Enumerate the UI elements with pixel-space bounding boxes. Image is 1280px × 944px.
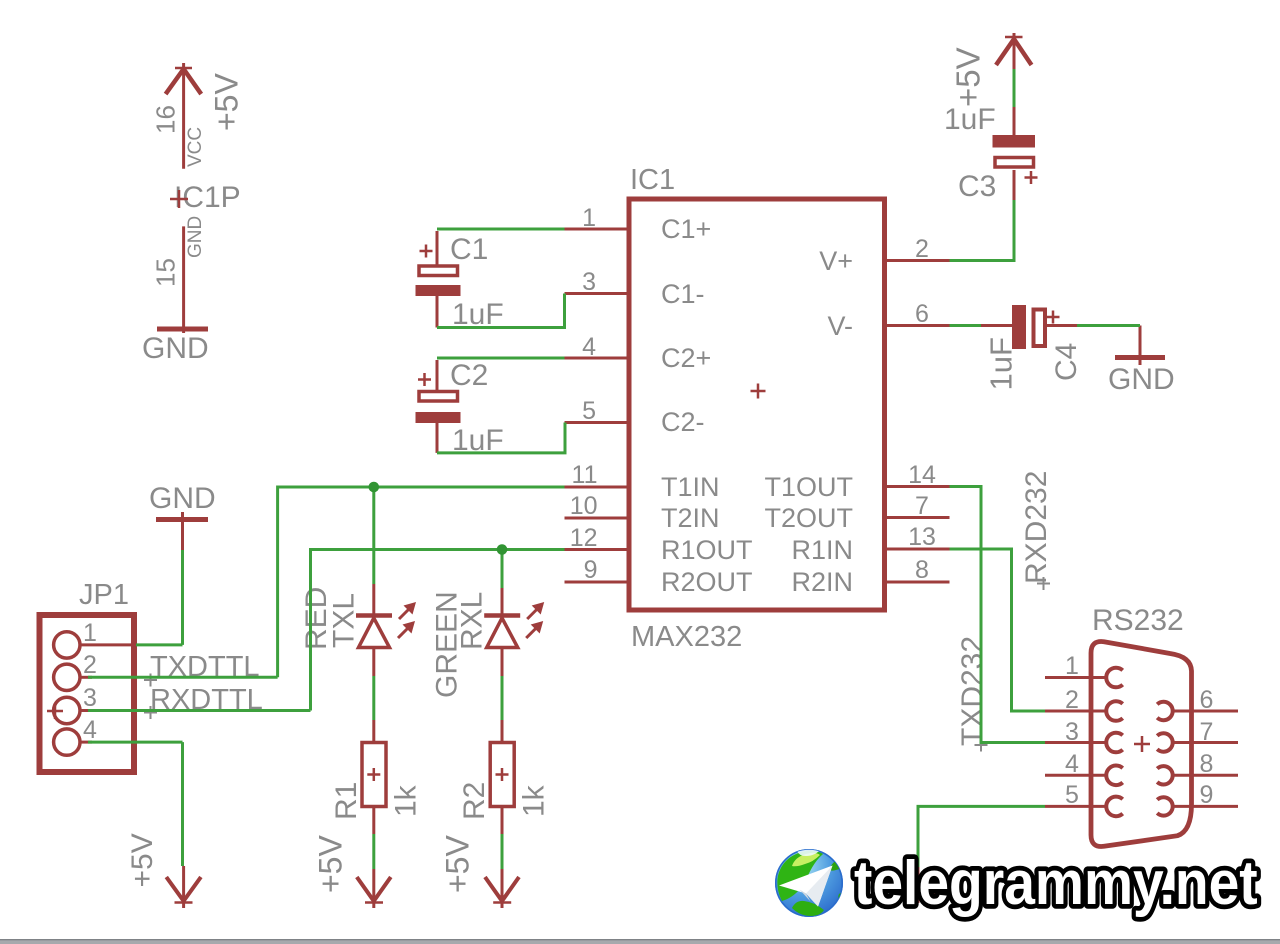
svg-text:1k: 1k bbox=[518, 784, 551, 817]
svg-text:GND: GND bbox=[149, 482, 216, 515]
svg-text:T1IN: T1IN bbox=[661, 472, 720, 502]
svg-text:8: 8 bbox=[1200, 750, 1214, 778]
svg-text:1uF: 1uF bbox=[984, 337, 1019, 390]
svg-text:C2-: C2- bbox=[661, 407, 705, 437]
svg-text:13: 13 bbox=[908, 523, 936, 551]
svg-text:5: 5 bbox=[1065, 781, 1079, 809]
svg-text:C1-: C1- bbox=[661, 279, 705, 309]
svg-text:5: 5 bbox=[582, 397, 596, 425]
svg-text:15: 15 bbox=[151, 258, 181, 287]
svg-text:16: 16 bbox=[151, 105, 181, 134]
svg-text:TXD232: TXD232 bbox=[956, 636, 989, 746]
svg-text:C1: C1 bbox=[450, 233, 488, 266]
svg-text:6: 6 bbox=[1200, 686, 1214, 714]
svg-text:C2+: C2+ bbox=[661, 343, 711, 373]
svg-text:8: 8 bbox=[915, 556, 929, 584]
svg-text:1: 1 bbox=[582, 204, 596, 232]
svg-text:2: 2 bbox=[915, 235, 929, 263]
svg-text:1: 1 bbox=[1065, 652, 1079, 680]
svg-text:C2: C2 bbox=[450, 359, 488, 392]
svg-text:+5V: +5V bbox=[950, 47, 987, 107]
svg-text:RXL: RXL bbox=[456, 592, 489, 650]
svg-text:R1OUT: R1OUT bbox=[661, 535, 753, 565]
svg-text:3: 3 bbox=[582, 268, 596, 296]
svg-text:RS232: RS232 bbox=[1092, 604, 1184, 637]
svg-text:+5V: +5V bbox=[440, 835, 476, 893]
svg-text:14: 14 bbox=[908, 461, 936, 489]
svg-text:2: 2 bbox=[1065, 686, 1079, 714]
svg-text:GND: GND bbox=[185, 216, 206, 258]
svg-text:R2OUT: R2OUT bbox=[661, 567, 753, 597]
svg-text:2: 2 bbox=[83, 651, 97, 679]
svg-text:10: 10 bbox=[570, 492, 598, 520]
svg-text:9: 9 bbox=[1200, 781, 1214, 809]
svg-text:3: 3 bbox=[1065, 718, 1079, 746]
svg-text:1uF: 1uF bbox=[944, 103, 996, 136]
svg-text:IC1: IC1 bbox=[630, 164, 675, 196]
svg-text:T2OUT: T2OUT bbox=[764, 503, 853, 533]
svg-text:R1: R1 bbox=[330, 782, 363, 820]
svg-text:1: 1 bbox=[83, 619, 97, 647]
svg-text:VCC: VCC bbox=[185, 127, 206, 167]
svg-text:RXD232: RXD232 bbox=[1020, 471, 1053, 584]
svg-text:C1+: C1+ bbox=[661, 214, 711, 244]
svg-text:4: 4 bbox=[1065, 750, 1079, 778]
svg-text:JP1: JP1 bbox=[79, 579, 129, 611]
svg-text:7: 7 bbox=[915, 492, 929, 520]
svg-text:telegrammy.net: telegrammy.net bbox=[854, 849, 1258, 918]
svg-text:GND: GND bbox=[1108, 363, 1175, 396]
svg-text:R2: R2 bbox=[458, 782, 491, 820]
svg-text:R2IN: R2IN bbox=[791, 567, 853, 597]
svg-text:C3: C3 bbox=[958, 170, 996, 203]
svg-text:GND: GND bbox=[142, 332, 209, 365]
svg-text:3: 3 bbox=[83, 684, 97, 712]
svg-text:+5V: +5V bbox=[209, 73, 245, 131]
svg-text:1k: 1k bbox=[390, 784, 423, 817]
svg-text:TXL: TXL bbox=[328, 593, 361, 648]
svg-text:11: 11 bbox=[572, 461, 598, 489]
svg-text:12: 12 bbox=[570, 524, 598, 552]
svg-text:MAX232: MAX232 bbox=[631, 621, 742, 653]
svg-text:+5V: +5V bbox=[313, 835, 349, 893]
svg-text:T2IN: T2IN bbox=[661, 503, 720, 533]
svg-text:+5V: +5V bbox=[126, 833, 159, 887]
svg-text:7: 7 bbox=[1200, 718, 1214, 746]
svg-text:4: 4 bbox=[582, 333, 596, 361]
svg-text:9: 9 bbox=[584, 556, 598, 584]
svg-text:4: 4 bbox=[83, 716, 97, 744]
svg-text:IC1P: IC1P bbox=[174, 181, 241, 214]
svg-text:C4: C4 bbox=[1050, 343, 1083, 381]
svg-text:V+: V+ bbox=[819, 246, 853, 276]
svg-text:6: 6 bbox=[915, 300, 929, 328]
svg-text:R1IN: R1IN bbox=[791, 535, 853, 565]
svg-text:T1OUT: T1OUT bbox=[764, 472, 853, 502]
svg-text:V-: V- bbox=[827, 311, 853, 341]
